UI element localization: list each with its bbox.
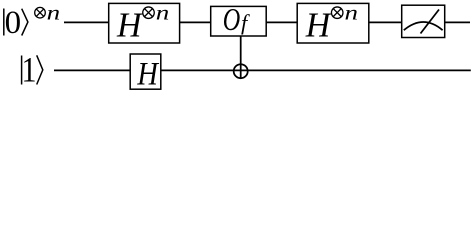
svg-text:0: 0	[5, 5, 22, 41]
wire bottom 2	[161, 69, 471, 71]
svg-text:H: H	[116, 5, 144, 44]
node q0 label ket0	[4, 5, 28, 41]
svg-text:1: 1	[22, 49, 37, 89]
tensor superscript on q0 label	[35, 3, 61, 25]
gate U3 H tensor n (second)	[297, 3, 369, 45]
wire top 4	[369, 21, 402, 23]
gate U4 H (bottom)	[130, 54, 161, 92]
wire control line from Of to target	[240, 36, 242, 79]
svg-text:H: H	[137, 56, 160, 92]
wire top 5	[445, 21, 470, 23]
node q1 label ket1	[22, 49, 43, 89]
wire top 1	[64, 21, 109, 23]
svg-text:n: n	[345, 3, 359, 25]
cnot target xor on q1	[234, 64, 248, 78]
wire bottom 1	[54, 69, 130, 71]
gate U2 oracle Of	[211, 2, 267, 37]
meter M1 measurement	[402, 5, 445, 37]
svg-text:O: O	[223, 2, 241, 37]
gate U1 H tensor n (first)	[109, 3, 180, 45]
wire top 3	[266, 21, 297, 23]
svg-text:n: n	[156, 3, 170, 25]
svg-text:H: H	[305, 5, 333, 44]
wire top 2	[180, 21, 211, 23]
svg-text:n: n	[47, 3, 61, 25]
